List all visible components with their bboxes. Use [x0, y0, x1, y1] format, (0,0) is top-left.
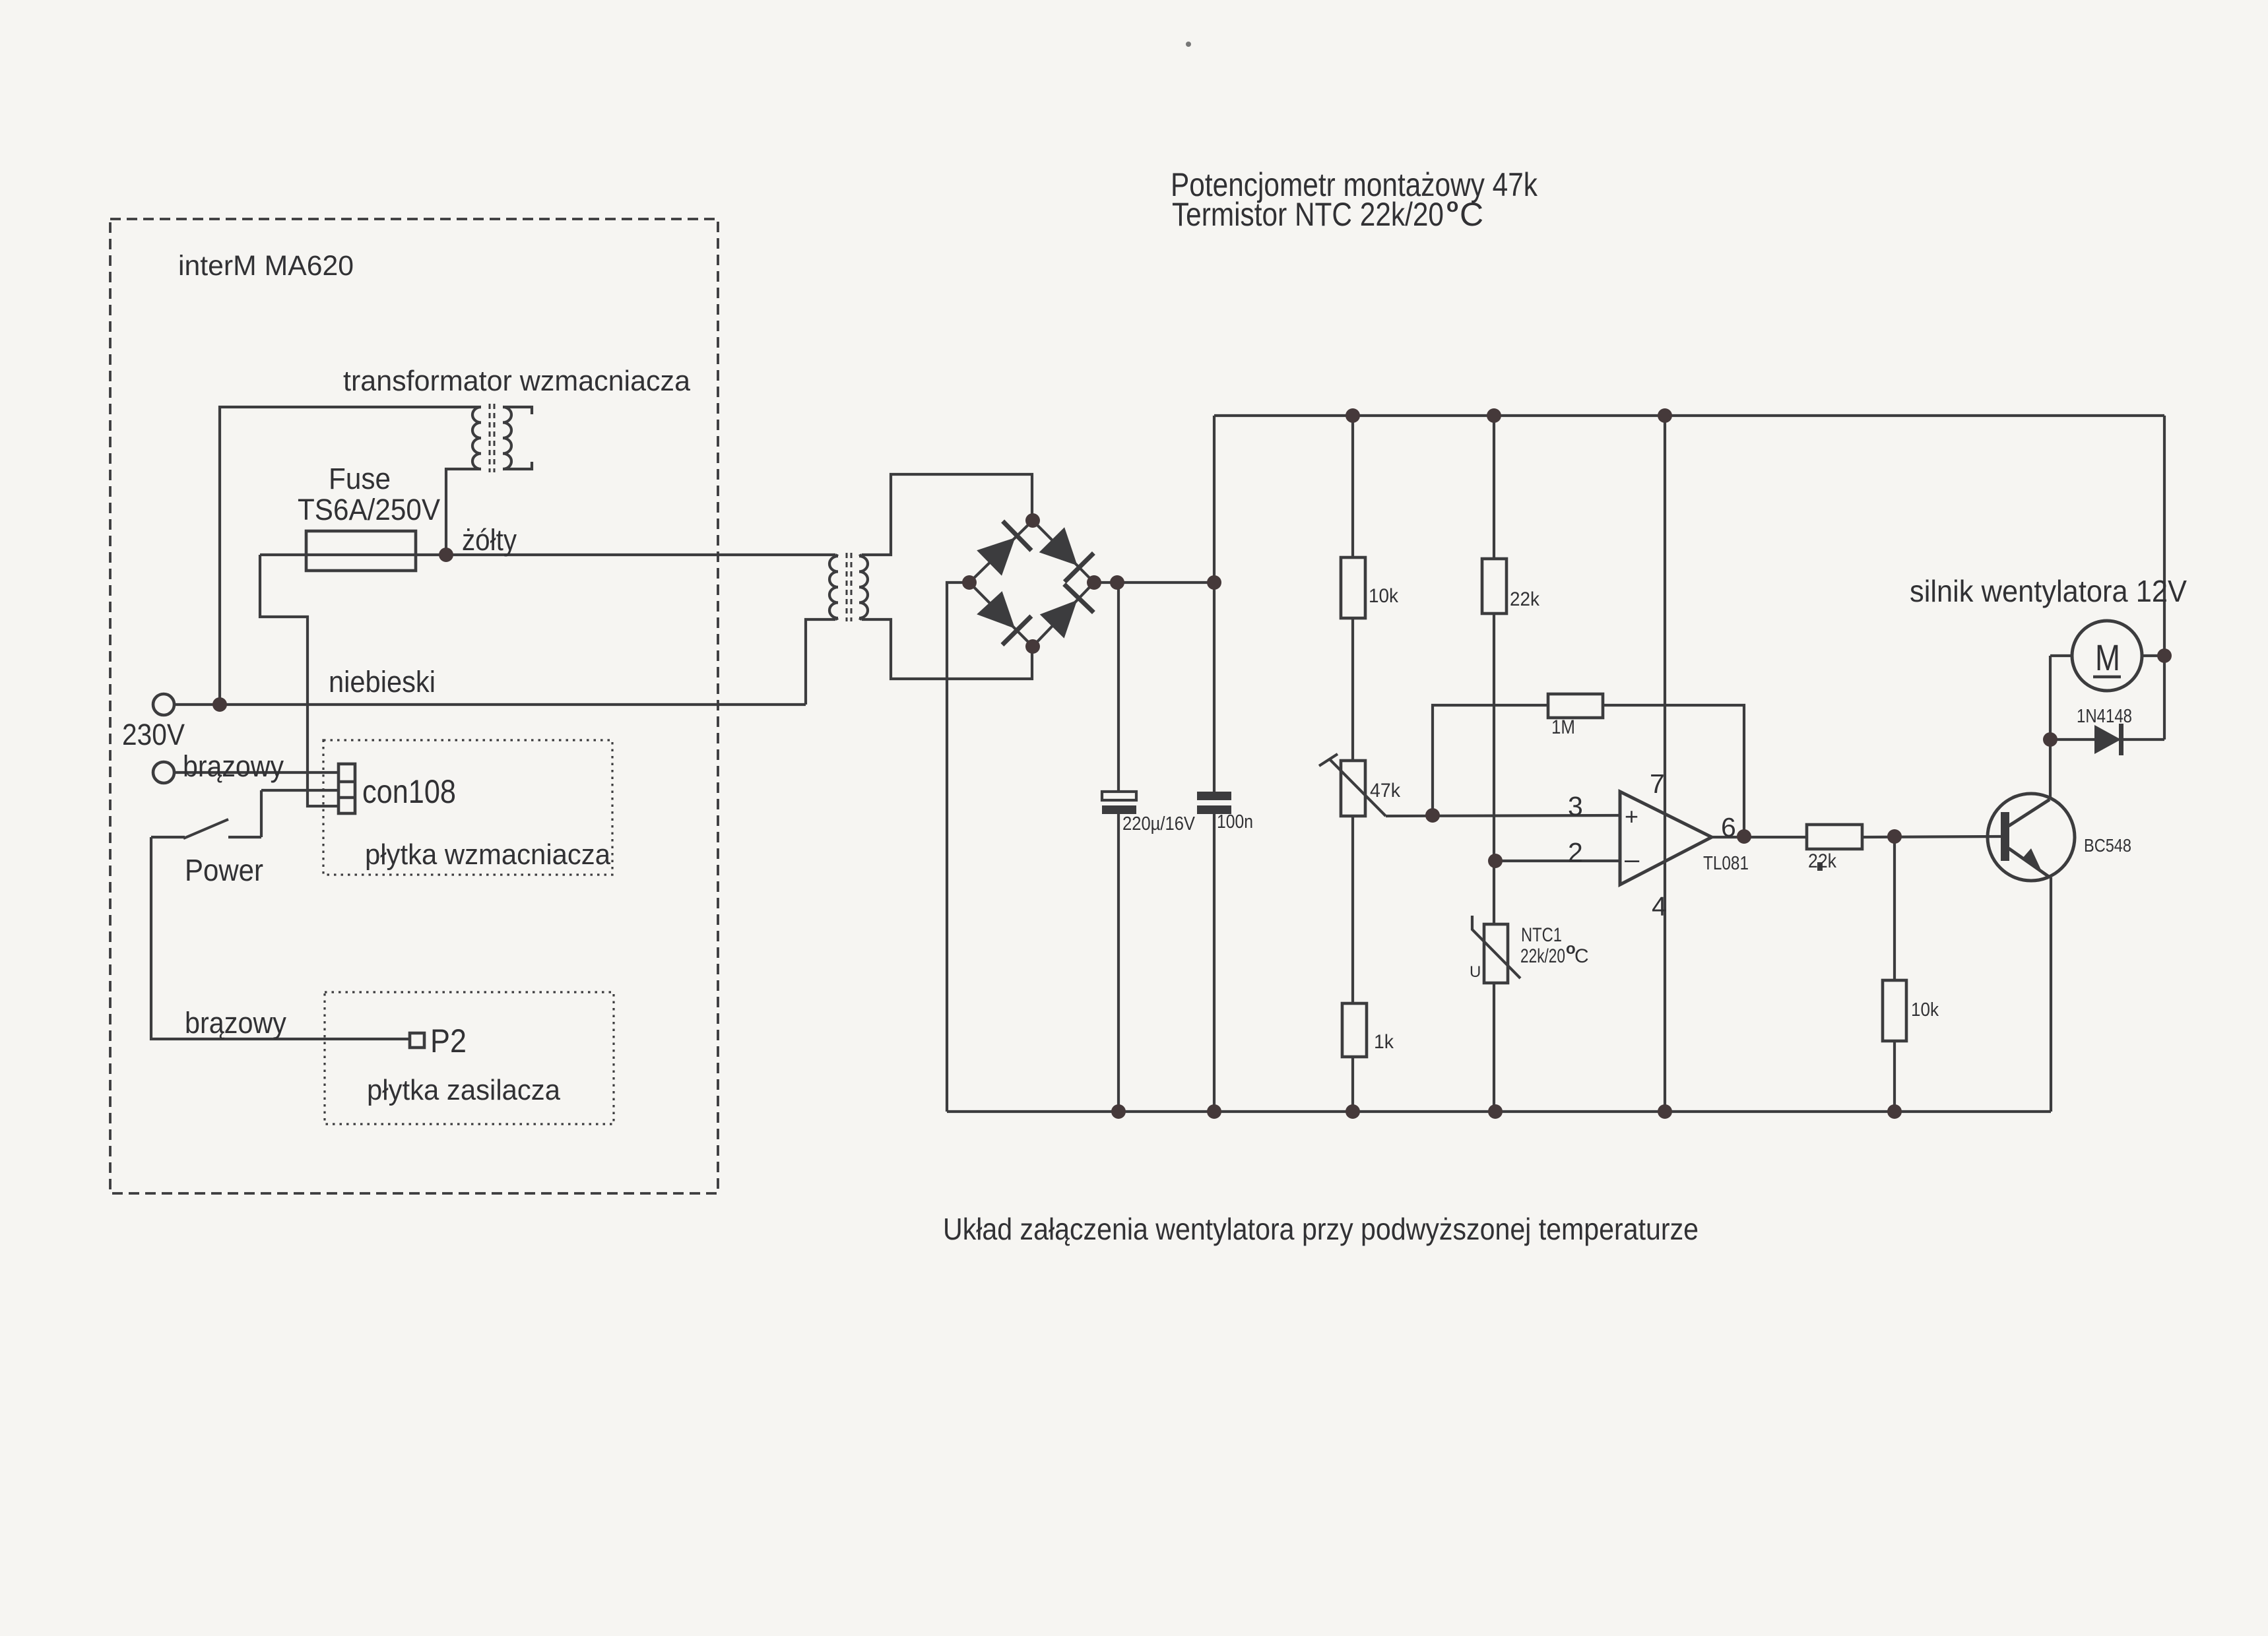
svg-text:płytka zasilacza: płytka zasilacza	[367, 1074, 560, 1106]
svg-text:Układ załączenia wentylatora p: Układ załączenia wentylatora przy podwyż…	[943, 1212, 1699, 1246]
svg-text:47k: 47k	[1370, 780, 1401, 802]
svg-text:10k: 10k	[1911, 999, 1939, 1021]
svg-text:10k: 10k	[1369, 585, 1399, 607]
svg-text:TS6A/250V: TS6A/250V	[298, 493, 440, 526]
svg-text:con108: con108	[362, 773, 456, 810]
svg-text:–: –	[1625, 845, 1640, 874]
svg-text:U: U	[1470, 963, 1481, 981]
svg-text:brązowy: brązowy	[183, 749, 284, 783]
svg-text:+: +	[1625, 803, 1638, 830]
svg-text:100n: 100n	[1217, 811, 1253, 833]
svg-text:M: M	[2095, 637, 2120, 678]
svg-text:22k: 22k	[1510, 588, 1540, 610]
svg-text:1k: 1k	[1374, 1031, 1394, 1053]
svg-text:płytka wzmacniacza: płytka wzmacniacza	[365, 838, 610, 871]
svg-text:NTC1: NTC1	[1521, 924, 1562, 946]
svg-text:o: o	[1446, 195, 1458, 216]
svg-text:1M: 1M	[1551, 716, 1575, 738]
svg-text:4: 4	[1652, 891, 1667, 922]
svg-text:żółty: żółty	[462, 523, 517, 557]
svg-text:interM MA620: interM MA620	[178, 250, 354, 282]
svg-text:C: C	[1460, 196, 1483, 233]
svg-text:TL081: TL081	[1703, 853, 1749, 874]
svg-text:1N4148: 1N4148	[2077, 706, 2132, 727]
svg-text:22k/20: 22k/20	[1520, 945, 1565, 967]
svg-text:P2: P2	[430, 1022, 467, 1059]
svg-text:22k: 22k	[1808, 850, 1837, 872]
svg-text:BC548: BC548	[2084, 835, 2131, 856]
svg-text:2: 2	[1568, 837, 1583, 867]
svg-text:silnik wentylatora 12V: silnik wentylatora 12V	[1910, 574, 2187, 608]
svg-text:230V: 230V	[122, 718, 185, 751]
svg-text:Termistor NTC 22k/20: Termistor NTC 22k/20	[1172, 196, 1444, 233]
svg-text:6: 6	[1721, 812, 1736, 842]
svg-text:Power: Power	[185, 853, 263, 887]
svg-text:3: 3	[1568, 791, 1583, 821]
svg-text:C: C	[1574, 945, 1589, 967]
svg-text:220µ/16V: 220µ/16V	[1122, 813, 1196, 834]
svg-text:brązowy: brązowy	[185, 1006, 286, 1040]
svg-text:Fuse: Fuse	[329, 462, 391, 495]
svg-text:niebieski: niebieski	[329, 665, 436, 699]
svg-text:transformator wzmacniacza: transformator wzmacniacza	[343, 365, 691, 397]
svg-text:7: 7	[1650, 769, 1665, 799]
